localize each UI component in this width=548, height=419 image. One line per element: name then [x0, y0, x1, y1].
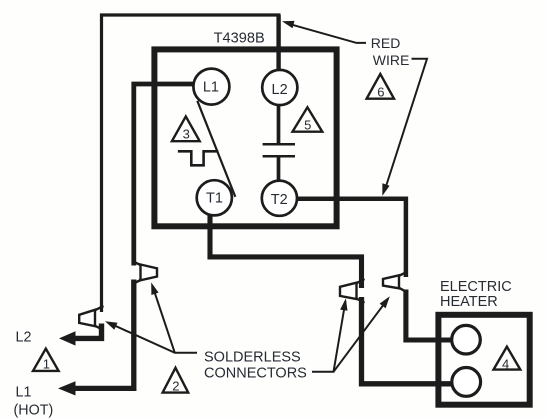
- svg-text:L2: L2: [16, 330, 32, 346]
- svg-text:(HOT): (HOT): [14, 403, 54, 419]
- svg-text:3: 3: [183, 127, 190, 142]
- svg-text:L1: L1: [16, 384, 32, 400]
- svg-text:SOLDERLESS: SOLDERLESS: [204, 349, 301, 365]
- svg-text:6: 6: [377, 84, 384, 99]
- svg-text:HEATER: HEATER: [440, 294, 498, 310]
- svg-text:T2: T2: [271, 192, 288, 208]
- svg-text:CONNECTORS: CONNECTORS: [204, 366, 307, 382]
- svg-text:L1: L1: [203, 80, 219, 96]
- svg-text:RED: RED: [371, 35, 401, 51]
- svg-text:ELECTRIC: ELECTRIC: [440, 279, 512, 295]
- svg-text:T1: T1: [206, 190, 223, 206]
- svg-text:T4398B: T4398B: [214, 30, 265, 46]
- svg-text:1: 1: [43, 357, 50, 372]
- svg-text:2: 2: [172, 379, 179, 394]
- svg-text:WIRE: WIRE: [373, 52, 410, 68]
- svg-text:L2: L2: [272, 82, 288, 98]
- svg-text:4: 4: [502, 356, 509, 371]
- svg-text:5: 5: [304, 117, 311, 132]
